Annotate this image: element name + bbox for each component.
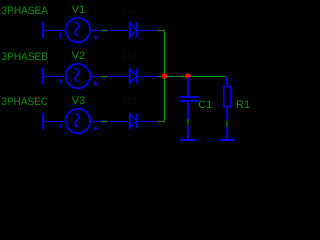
capacitor C1 top plate [179,96,198,98]
diode D1 [130,23,137,38]
V3 minus mark [60,124,62,129]
C1 bottom lead [187,102,189,119]
wire terminal to V1 [44,30,67,32]
ground lead under C1 [187,125,189,139]
V2 minus mark [60,79,62,84]
capacitor C1 bottom plate [179,100,198,102]
ac source V1 [66,18,90,42]
R1 top lead [226,76,228,86]
resistor R1 [224,87,231,107]
D1 cathode lead [138,30,157,32]
V1 plus mark [93,35,98,40]
V2 plus mark [93,81,98,86]
D2 anode lead [110,76,128,78]
ac source V3 [66,109,90,133]
D3 anode lead [110,121,128,123]
terminal port 3PHASEA [42,22,44,38]
wire V3 to D3 [101,121,107,123]
ground lead under R1 [226,127,228,140]
V1 sine symbol [75,22,79,35]
wire D2 to bus and load [157,76,226,78]
D2 cathode lead [138,76,157,78]
V3 plus mark [93,126,98,131]
terminal port 3PHASEC [42,113,44,129]
D3 cathode bar [136,114,138,129]
svg-text:V1: V1 [72,4,85,16]
V1 right pin [90,30,101,32]
svg-text:3PHASEC: 3PHASEC [2,96,49,108]
wire R1 to ground [226,120,228,127]
junction bus/output [162,73,168,79]
D3 cathode lead [138,121,157,123]
wire C1 to ground [187,119,189,125]
ac source V2 [66,64,90,88]
svg-text:D2: D2 [123,51,137,63]
V3 right pin [90,121,101,123]
V2 sine symbol [75,68,79,81]
svg-text:3PHASEB: 3PHASEB [2,51,49,63]
D1 anode lead [110,30,128,32]
V3 sine symbol [75,113,79,126]
wire V1 to D1 [101,30,107,32]
wire V2 to D2 [101,76,107,78]
svg-text:D3: D3 [123,96,137,108]
C1 top lead [187,77,189,96]
diode D3 [130,114,137,129]
ground symbol under C1 [180,139,196,141]
wire D1 to bus [157,30,165,32]
svg-text:V3: V3 [72,95,85,107]
svg-text:D1: D1 [123,5,137,17]
D1 cathode bar [136,23,138,38]
svg-text:3PHASEA: 3PHASEA [2,5,49,17]
svg-text:R1: R1 [236,99,250,111]
wire output bus vertical [164,30,166,122]
R1 bottom lead [226,107,228,121]
svg-text:V2: V2 [72,50,85,62]
junction C1 tap [185,73,191,79]
wire D3 to bus [157,121,165,123]
wire terminal to V3 [44,121,67,123]
svg-text:C1: C1 [198,99,212,111]
V1 minus mark [60,33,62,38]
ground symbol under R1 [219,139,235,141]
V2 right pin [90,76,101,78]
terminal port 3PHASEB [42,68,44,84]
diode D2 [130,69,137,84]
D2 cathode bar [136,69,138,84]
wire terminal to V2 [44,76,67,78]
